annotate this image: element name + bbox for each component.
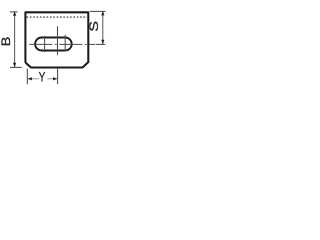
slot (stadium / elongated hole) <box>35 38 72 51</box>
Y arrow left <box>27 77 32 80</box>
B dimension line <box>14 12 16 67</box>
background <box>0 0 109 94</box>
Y arrow right <box>53 77 58 80</box>
B arrow up <box>13 11 16 16</box>
B dimension: top extension line <box>10 11 18 13</box>
S dimension line <box>102 11 104 44</box>
B dimension: bottom extension line <box>10 66 22 68</box>
svg-text:B: B <box>0 37 13 47</box>
S arrow up <box>101 11 104 16</box>
left arc-center tick <box>44 36 46 52</box>
Y dimension line (broken at label) <box>27 78 39 80</box>
S dimension: top extension line <box>90 10 106 12</box>
S dimension: bottom extension line (at slot centerline level) <box>96 43 105 45</box>
vertical centerline through slot <box>57 26 59 55</box>
B arrow down <box>13 63 16 68</box>
Y dimension: left extension line <box>26 69 28 85</box>
part outline (top view of block) <box>25 12 88 67</box>
S arrow down <box>101 40 104 45</box>
Y dimension: right extension line <box>57 68 59 84</box>
hidden (dotted) line near top edge <box>27 16 88 18</box>
svg-text:Y: Y <box>39 69 46 85</box>
horizontal centerline (dash-dot) <box>29 43 95 45</box>
right arc-center tick <box>64 35 66 51</box>
svg-text:S: S <box>88 21 101 32</box>
